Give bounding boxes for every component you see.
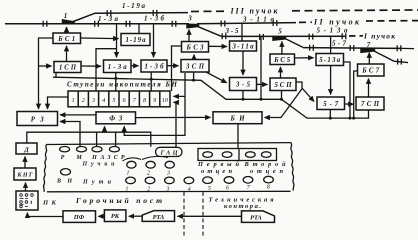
wire BS1 left down to RZ bbox=[39, 38, 54, 109]
box KNG bbox=[14, 168, 36, 180]
lamp put 3 bbox=[165, 177, 175, 184]
svg-text:7: 7 bbox=[367, 41, 371, 49]
lamp put 4 bbox=[184, 177, 194, 184]
svg-text:7: 7 bbox=[247, 185, 251, 191]
svg-text:3: 3 bbox=[187, 15, 192, 23]
insulated joint J5 on 1-19a line bbox=[107, 10, 111, 16]
lamp puchok 1 bbox=[127, 161, 136, 168]
wire: main approach track bbox=[5, 23, 189, 25]
wire riser from 3SP down to FZ arrow bbox=[124, 73, 185, 135]
svg-text:П: П bbox=[91, 155, 97, 161]
lamp R bbox=[60, 147, 70, 152]
svg-text:Пути: Пути bbox=[82, 179, 112, 185]
svg-text:3: 3 bbox=[165, 187, 169, 193]
wire left riser to BS3 bbox=[172, 46, 182, 91]
panel texts bbox=[56, 149, 286, 192]
wire 3SP to BS3 bbox=[193, 55, 195, 60]
svg-text:6: 6 bbox=[226, 186, 229, 192]
wire 3SP diagonal to 3-5 bbox=[206, 72, 227, 83]
lamp otcep 2b bbox=[261, 152, 271, 158]
junction dot bus/5SP riser bbox=[280, 98, 283, 101]
wire BS3 to 3-11a bbox=[209, 45, 228, 47]
wire RTA gor to RK bbox=[129, 215, 142, 217]
svg-text:ГАЦ: ГАЦ bbox=[160, 149, 178, 156]
GATs stadium bbox=[156, 147, 183, 156]
box BS5 bbox=[270, 54, 295, 65]
svg-text:2: 2 bbox=[82, 98, 85, 104]
wire 5-13a down to 5-7 top bbox=[330, 66, 332, 95]
insulated joint J10 on 5-13a line bbox=[309, 34, 313, 40]
wire: III puchok dashed line bbox=[191, 10, 418, 12]
svg-text:3СП: 3СП bbox=[185, 63, 205, 70]
arcs over puchki lamps bbox=[123, 158, 142, 161]
svg-text:5-7: 5-7 bbox=[332, 40, 347, 48]
box FZ bbox=[96, 112, 136, 124]
junction dot bus/BS7 riser bbox=[352, 117, 355, 120]
svg-text:3: 3 bbox=[166, 170, 170, 176]
box 1-3a bbox=[104, 60, 132, 73]
panel top edge bbox=[47, 143, 292, 145]
wire cells box to RZ bbox=[48, 97, 69, 109]
lamp M bbox=[77, 147, 87, 152]
wire 7SP to BS7 bbox=[368, 79, 370, 98]
svg-text:5: 5 bbox=[208, 186, 211, 192]
svg-text:8: 8 bbox=[267, 185, 270, 191]
junction dot bus/3-5 riser bbox=[242, 98, 245, 101]
wire 5SP to BS5 bbox=[280, 67, 282, 78]
svg-text:2: 2 bbox=[147, 170, 150, 176]
svg-text:Р: Р bbox=[61, 155, 65, 161]
wire 3SP bottom to bus bbox=[193, 72, 195, 80]
wire RTA tech to RTA gor bbox=[178, 215, 242, 217]
wire 5-7 bottom to bus bbox=[329, 110, 331, 119]
wire: branch 1 to 1-19a line bbox=[72, 13, 188, 22]
wire FZ to BI bbox=[136, 116, 211, 118]
wire PF to PK box bbox=[27, 213, 63, 217]
wire main collecting bus staircase bbox=[53, 73, 369, 119]
insulated joint J8 on 3-5 line bbox=[222, 33, 226, 39]
svg-text:4: 4 bbox=[188, 186, 191, 193]
svg-text:1-19а: 1-19а bbox=[122, 2, 146, 10]
insulated joint J11 end of 5-13a bbox=[342, 33, 346, 39]
wire: diagonal switch7 down right bbox=[372, 50, 408, 63]
panel right torn edge bbox=[291, 143, 294, 191]
svg-text:Ступени накопителя БН: Ступени накопителя БН bbox=[67, 81, 178, 89]
lamp puchok 2 bbox=[146, 161, 155, 168]
wire BS7 to switch 7 bbox=[368, 53, 370, 65]
svg-text:М: М bbox=[75, 155, 82, 161]
lamp put 7 bbox=[243, 177, 253, 184]
svg-text:8: 8 bbox=[143, 98, 146, 104]
svg-text:Пучки: Пучки bbox=[82, 162, 116, 168]
box 3-5 bbox=[230, 78, 257, 91]
junction dot bus/1-3b riser bbox=[150, 78, 153, 81]
svg-text:2: 2 bbox=[147, 187, 150, 193]
box RZ bbox=[17, 112, 58, 126]
wire D up to horizontal bus, to GATs bbox=[27, 132, 151, 147]
insulated joint J7 on 3-11a line bbox=[273, 20, 277, 26]
svg-text:5-7: 5-7 bbox=[323, 101, 339, 108]
svg-text:4: 4 bbox=[102, 97, 105, 104]
wire: I puchok dashed bbox=[349, 35, 363, 37]
svg-text:I пучок: I пучок bbox=[363, 32, 395, 41]
wire BS5 to switch 5 bbox=[281, 42, 283, 55]
wire 5SP to Y node to 5-7 left bbox=[296, 82, 314, 102]
box 1-3b bbox=[141, 60, 167, 72]
svg-text:3: 3 bbox=[91, 98, 95, 104]
svg-text:II пучок: II пучок bbox=[313, 17, 360, 26]
insulated joint J7a on 3-11a line bbox=[221, 21, 225, 27]
junction dot bus/5-7 riser bbox=[329, 117, 332, 120]
wire track down x261 to bus bbox=[260, 37, 262, 99]
box RK bbox=[104, 210, 126, 222]
box RTA gorochny bbox=[142, 211, 174, 222]
svg-text:1-3б: 1-3б bbox=[144, 15, 165, 23]
cell numbers bbox=[72, 97, 168, 104]
lamp put 5 bbox=[203, 177, 213, 184]
box labels bbox=[17, 36, 380, 179]
wire 5-13a right down to bus bbox=[344, 62, 351, 118]
lamp put 8 bbox=[264, 176, 274, 183]
wire: II line from switch 3 bbox=[197, 23, 296, 24]
wire BS1 to switch 1 bbox=[66, 27, 68, 33]
wire BS7 left down to bus bbox=[354, 71, 358, 118]
insulated joint J1 main line bbox=[43, 21, 47, 27]
svg-text:1: 1 bbox=[72, 98, 75, 104]
box D bbox=[16, 143, 37, 154]
lamp AZSR bbox=[109, 147, 119, 152]
box PK punched-card reader bbox=[16, 191, 38, 210]
box 1SP bbox=[54, 62, 81, 73]
insulated joint J14 after switch 7 bbox=[397, 45, 401, 51]
svg-text:отцеп: отцеп bbox=[201, 168, 232, 175]
wire bus down to AZSR lamp bbox=[115, 132, 117, 146]
bottom boxes bbox=[63, 210, 275, 223]
wire: 3-5 / 5-13a track line bbox=[221, 35, 346, 37]
svg-text:5-13а: 5-13а bbox=[319, 57, 341, 64]
insulated joint J2 section 1-3a bbox=[95, 21, 99, 27]
PK reader inner marks bbox=[20, 194, 34, 208]
wire 3-11a down to 3-5 bbox=[242, 51, 244, 75]
box BS1 bbox=[53, 33, 81, 44]
wire M-lamp up to RZ bbox=[60, 122, 80, 148]
svg-text:5: 5 bbox=[112, 98, 115, 104]
svg-text:1-3а: 1-3а bbox=[98, 15, 119, 23]
wire BS1 to 1-19a box bbox=[81, 37, 119, 40]
svg-text:АЗСР: АЗСР bbox=[100, 155, 125, 161]
svg-text:1: 1 bbox=[64, 12, 68, 20]
lamp put 6 bbox=[224, 177, 234, 184]
wire bus up into FZ arrow 1 bbox=[104, 126, 106, 132]
wire Y node to BI right bbox=[265, 89, 303, 118]
svg-text:РЗ: РЗ bbox=[31, 116, 45, 123]
wire 3-5 bottom to bus bbox=[242, 91, 244, 100]
wire 3-5 to 5SP bbox=[257, 83, 268, 85]
lamp VN bbox=[61, 169, 71, 175]
box BI bbox=[213, 112, 262, 124]
insulated joint J6 on 1-19a line bbox=[153, 10, 157, 16]
svg-text:Д: Д bbox=[23, 146, 29, 153]
otcep indicator box bbox=[198, 149, 277, 161]
svg-text:5: 5 bbox=[278, 28, 282, 36]
wire 1SP to 1-3a box bbox=[81, 65, 101, 67]
svg-text:ФЗ: ФЗ bbox=[109, 115, 123, 122]
lamp put 1 bbox=[126, 177, 136, 184]
wire 1-3b bottom to cells bbox=[150, 72, 152, 91]
svg-text:Первый: Первый bbox=[197, 161, 239, 168]
svg-text:ПФ: ПФ bbox=[73, 214, 85, 221]
junction dot bus/3SP riser bbox=[192, 79, 195, 82]
wire track to 1-3a top arrow bbox=[116, 24, 118, 58]
svg-text:Второй: Второй bbox=[244, 161, 286, 168]
svg-text:БС7: БС7 bbox=[361, 68, 380, 75]
svg-text:1-3б: 1-3б bbox=[145, 64, 165, 71]
svg-text:ПК: ПК bbox=[42, 199, 57, 206]
wire track to 1-19a box bbox=[138, 24, 140, 34]
svg-text:контора.: контора. bbox=[224, 203, 261, 210]
svg-text:1: 1 bbox=[127, 170, 130, 176]
switch 5 bbox=[273, 37, 286, 41]
svg-text:отцеп: отцеп bbox=[250, 168, 283, 175]
junction dot bus/5-13a riser bbox=[348, 117, 351, 120]
box BS3 bbox=[182, 42, 209, 53]
box 1-19a bbox=[121, 34, 150, 46]
panel bottom edge bbox=[47, 190, 291, 193]
wire KNG to D bbox=[24, 157, 26, 169]
wire BS3 to switch 3 bbox=[188, 30, 190, 42]
box 5SP bbox=[270, 78, 296, 91]
svg-text:БС1: БС1 bbox=[57, 36, 75, 43]
svg-text:5-13а: 5-13а bbox=[317, 26, 349, 34]
svg-text:РТА: РТА bbox=[153, 214, 165, 221]
wire BS5 to 5-13a bbox=[295, 57, 314, 59]
svg-text:7: 7 bbox=[133, 98, 137, 104]
svg-text:1: 1 bbox=[126, 187, 129, 193]
wire BI down to otcep box bbox=[237, 124, 239, 149]
wire PK box to KNG bbox=[25, 183, 27, 192]
wire 1-3b to 3SP bbox=[167, 65, 179, 67]
svg-text:Горочный пост: Горочный пост bbox=[75, 196, 162, 205]
svg-text:РК: РК bbox=[111, 213, 120, 220]
svg-text:ВН: ВН bbox=[56, 179, 72, 185]
wire 1-3a to 1-3b bbox=[131, 65, 139, 67]
svg-text:БС3: БС3 bbox=[186, 44, 205, 51]
svg-text:РТА: РТА bbox=[250, 214, 262, 221]
svg-text:1-3а: 1-3а bbox=[108, 64, 128, 71]
wire hook2 into cells box, down to GATs bbox=[174, 102, 177, 147]
switch 1 bbox=[63, 20, 75, 24]
junction dots bbox=[114, 77, 355, 120]
wire: diagonal switch3 to 3-5 line bbox=[196, 26, 221, 36]
insulated joint J12 on 5-7 line bbox=[310, 45, 314, 51]
wire track to 5-13a top bbox=[330, 36, 332, 53]
wire cells riser joining 1-3a feed bbox=[96, 49, 117, 91]
insulated joint J3 section 1-3b bbox=[126, 21, 130, 27]
insulated joint J15 on lower branch bbox=[398, 59, 402, 65]
svg-text:1СП: 1СП bbox=[59, 65, 77, 72]
wire 5-7 to 7SP bbox=[345, 103, 354, 105]
lamp otcep 1b bbox=[222, 152, 232, 158]
wire branch into 1SP left bbox=[39, 65, 52, 67]
svg-text:КНГ: КНГ bbox=[17, 173, 33, 179]
box 3SP bbox=[181, 60, 209, 73]
switch 7 bbox=[361, 49, 375, 53]
svg-text:7СП: 7СП bbox=[361, 101, 380, 108]
lamp puchok 3 bbox=[165, 161, 174, 168]
box RTA tech bbox=[242, 211, 275, 223]
junction dot bus/track riser bbox=[260, 98, 263, 101]
box BS7 bbox=[358, 64, 385, 76]
accumulator cells box bbox=[68, 91, 170, 107]
wire hook1 into cells box bbox=[174, 95, 186, 97]
svg-text:3-11а: 3-11а bbox=[232, 44, 255, 51]
switch 3 bbox=[187, 24, 199, 28]
junction dot bus/1-3a riser bbox=[114, 77, 117, 80]
wire 1SP to BS1 bbox=[66, 46, 68, 62]
svg-text:10: 10 bbox=[162, 98, 168, 104]
box 5-13a bbox=[316, 54, 344, 66]
box PF bbox=[63, 211, 96, 223]
wire 5SP bottom to bus bbox=[281, 91, 283, 100]
svg-text:3-11а: 3-11а bbox=[242, 16, 275, 24]
box 3-11a bbox=[230, 41, 257, 51]
wire track to 3-11a top bbox=[241, 24, 243, 41]
svg-text:9: 9 bbox=[153, 98, 156, 104]
wire RK to PF bbox=[98, 215, 104, 217]
insulated joint J9 before switch 5 bbox=[260, 34, 264, 40]
svg-text:III пучок: III пучок bbox=[230, 7, 279, 16]
svg-text:6: 6 bbox=[123, 98, 126, 104]
svg-text:3-5: 3-5 bbox=[235, 82, 251, 89]
wire 1-3a bottom to cells bbox=[115, 73, 117, 92]
box 7SP bbox=[356, 97, 384, 110]
dashed dividers bbox=[184, 192, 203, 236]
lamp P bbox=[92, 147, 102, 152]
svg-text:1-19а: 1-19а bbox=[126, 37, 147, 44]
insulated joint J4 before switch 3 bbox=[172, 21, 176, 27]
panel left torn edge bbox=[44, 145, 47, 192]
wire: diagonal switch5 down to 5-7 line bbox=[284, 38, 303, 47]
wire FZ to RZ bbox=[60, 114, 96, 116]
box 5-7 bbox=[317, 97, 345, 110]
svg-text:БИ: БИ bbox=[230, 115, 246, 122]
wire track joint to 1-3b top bbox=[153, 24, 155, 58]
wire: II puchok dashed bbox=[299, 21, 418, 23]
lamp put 2 bbox=[145, 177, 155, 184]
insulated joint J13 before switch 7 bbox=[350, 45, 354, 51]
svg-text:5СП: 5СП bbox=[275, 82, 293, 89]
wire bus down to P lamp bbox=[96, 132, 98, 146]
wire: 5-7 / 7 track line bbox=[303, 47, 402, 50]
lamp otcep 1a bbox=[203, 152, 213, 158]
svg-text:БС5: БС5 bbox=[273, 57, 291, 64]
lamp otcep 2a bbox=[246, 152, 256, 158]
svg-text:3-5: 3-5 bbox=[225, 27, 240, 35]
